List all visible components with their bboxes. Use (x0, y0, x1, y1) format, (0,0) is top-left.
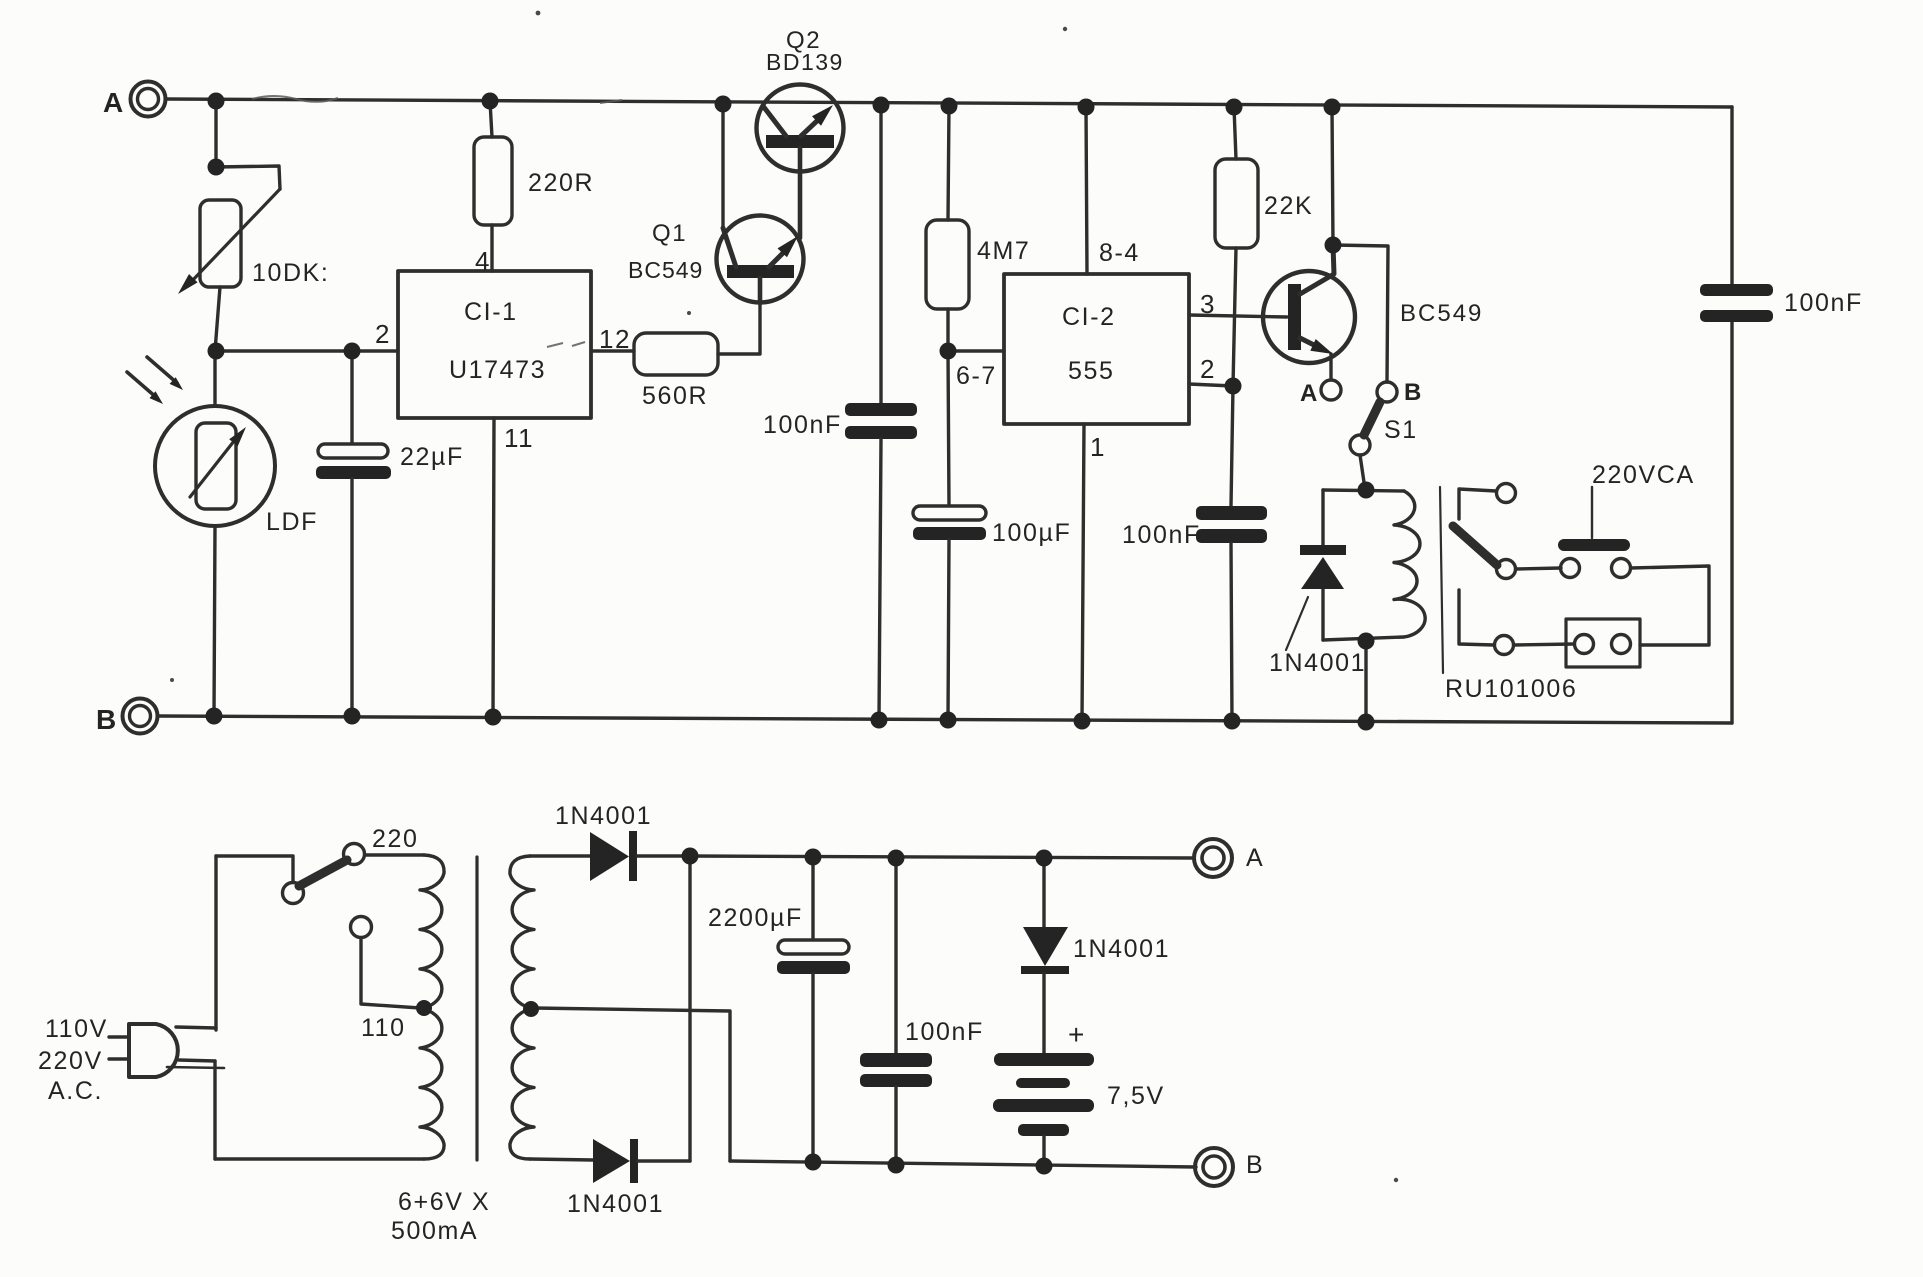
svg-text:B: B (1404, 379, 1423, 406)
svg-text:12: 12 (599, 324, 631, 354)
svg-text:100nF: 100nF (763, 411, 842, 439)
svg-text:22µF: 22µF (400, 443, 464, 471)
svg-text:100µF: 100µF (992, 519, 1071, 547)
svg-text:2: 2 (375, 319, 391, 349)
svg-text:6-7: 6-7 (956, 362, 997, 390)
svg-text:1N4001: 1N4001 (1269, 649, 1366, 677)
svg-text:220R: 220R (528, 169, 594, 197)
svg-text:8-4: 8-4 (1099, 239, 1140, 267)
svg-text:555: 555 (1068, 357, 1115, 385)
svg-text:10DK:: 10DK: (252, 259, 329, 287)
svg-text:BC549: BC549 (628, 257, 703, 283)
svg-text:A: A (103, 87, 125, 118)
svg-text:1: 1 (1090, 432, 1106, 462)
svg-text:7,5V: 7,5V (1107, 1082, 1165, 1110)
svg-text:B: B (1246, 1151, 1264, 1179)
svg-text:4M7: 4M7 (977, 237, 1030, 265)
svg-text:A.C.: A.C. (48, 1077, 103, 1105)
svg-text:LDF: LDF (266, 508, 318, 536)
svg-text:100nF: 100nF (1784, 289, 1863, 317)
svg-text:B: B (96, 704, 118, 735)
svg-text:CI-1: CI-1 (464, 298, 518, 326)
svg-text:Q1: Q1 (652, 220, 687, 247)
svg-text:U17473: U17473 (449, 356, 546, 384)
svg-text:220: 220 (372, 825, 419, 853)
svg-text:560R: 560R (642, 382, 708, 410)
svg-text:11: 11 (504, 423, 534, 453)
svg-text:100nF: 100nF (905, 1018, 984, 1046)
svg-text:+: + (1068, 1019, 1086, 1050)
svg-text:4: 4 (475, 246, 491, 276)
svg-text:1N4001: 1N4001 (1073, 935, 1170, 963)
svg-text:1N4001: 1N4001 (567, 1190, 664, 1218)
svg-text:BC549: BC549 (1400, 300, 1483, 327)
svg-text:S1: S1 (1384, 416, 1418, 444)
svg-text:500mA: 500mA (391, 1217, 478, 1245)
svg-text:110V: 110V (45, 1015, 108, 1043)
svg-text:220VCA: 220VCA (1592, 461, 1695, 489)
svg-text:22K: 22K (1264, 192, 1313, 220)
svg-text:1N4001: 1N4001 (555, 802, 652, 830)
svg-text:RU101006: RU101006 (1445, 675, 1577, 703)
svg-text:6+6V X: 6+6V X (398, 1188, 490, 1216)
svg-text:110: 110 (361, 1014, 406, 1042)
svg-text:2200µF: 2200µF (708, 904, 803, 932)
svg-text:A: A (1300, 380, 1319, 407)
svg-text:3: 3 (1200, 289, 1216, 319)
svg-text:2: 2 (1200, 354, 1216, 384)
svg-text:BD139: BD139 (766, 49, 844, 75)
svg-text:CI-2: CI-2 (1062, 303, 1116, 331)
svg-text:A: A (1246, 844, 1264, 872)
svg-text:220V: 220V (38, 1047, 103, 1075)
svg-text:100nF: 100nF (1122, 521, 1201, 549)
